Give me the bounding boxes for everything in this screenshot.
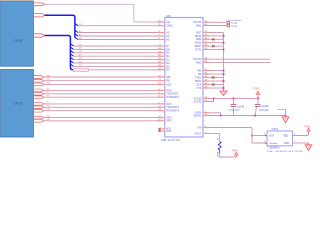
pin end dot OUT — [265, 135, 267, 137]
P3V3 power symbol right — [307, 128, 311, 131]
CPU3 port arrow 2 — [34, 14, 45, 17]
pin end dot Stand-by — [265, 142, 267, 144]
pin 34 D0 stub — [157, 69, 165, 71]
page border remnant left — [0, 0, 2, 2]
wire CPU3 arrow1 to U61 CE — [45, 4, 157, 22]
bus A fan to A2 — [75, 30, 78, 32]
pin 33 D1 stub — [157, 65, 165, 67]
svg-text:P18: P18 — [47, 83, 50, 85]
svg-text:TP134: TP134 — [231, 23, 238, 25]
pin 18 ALE stub — [157, 83, 165, 85]
svg-text:C1246: C1246 — [262, 105, 270, 108]
svg-text:P3V3: P3V3 — [305, 126, 312, 129]
pin 7 XOUT stub — [203, 132, 210, 134]
pin 13 RXD1/INT5 stub — [157, 110, 165, 112]
junction dot VCC42 — [213, 97, 215, 99]
wire right row y=70.5 — [210, 70, 224, 72]
pin 8 A2 stub — [157, 32, 165, 34]
wire SOUT1 to TP134 — [210, 21, 228, 23]
CPU2 port arrow 11 — [34, 119, 44, 122]
svg-text:OSC1: OSC1 — [272, 128, 279, 131]
wire CPU2 row pin 4 — [44, 89, 157, 91]
svg-text:XOUT: XOUT — [195, 132, 202, 135]
junction dot (49.5) — [222, 48, 224, 50]
wire D4 — [74, 55, 157, 57]
CPU2 block — [1, 70, 34, 138]
wire GND6 jog — [210, 113, 221, 116]
CPU2 port arrow 6 — [34, 96, 44, 99]
svg-text:10uF/16V: 10uF/16V — [259, 109, 270, 112]
svg-text:3: 3 — [264, 134, 265, 136]
svg-text:TP136: TP136 — [231, 26, 238, 28]
svg-text:CTS: CTS — [197, 87, 202, 90]
svg-text:P2: P2 — [47, 92, 49, 94]
svg-text:WR: WR — [166, 76, 170, 79]
page border remnant — [0, 0, 34, 2]
svg-text:P17: P17 — [47, 79, 50, 81]
wire XIN to OSC1 — [210, 128, 268, 144]
bus B fan entry — [70, 51, 73, 53]
wire VCC42 jog — [210, 98, 214, 101]
pin 35 SRDY stub — [203, 45, 210, 47]
pin 4 INT0 stub — [157, 89, 165, 91]
wire D6 — [74, 48, 157, 50]
svg-text:1.0uF 50V: 1.0uF 50V — [229, 109, 240, 112]
svg-text:CPU2: CPU2 — [14, 101, 23, 105]
svg-text:P16: P16 — [47, 75, 50, 77]
bus B fan entry — [70, 47, 73, 49]
capacitor C1246 — [257, 98, 259, 104]
P3V3 power symbol — [257, 94, 259, 98]
junction dot (35.9) — [222, 35, 224, 37]
pin 27 D7 stub — [157, 45, 165, 47]
junction dot (70.5) — [222, 69, 224, 71]
svg-text:1: 1 — [264, 141, 265, 143]
svg-text:Stand-by: Stand-by — [269, 142, 277, 145]
wire right row y=49.5 — [210, 49, 224, 51]
test point TP134 — [227, 21, 230, 24]
svg-text:VDD: VDD — [283, 135, 288, 138]
wire CPU2 row pin 13 — [44, 110, 157, 112]
pin 16 WR stub — [157, 76, 165, 78]
pin 41 RST stub — [203, 32, 210, 34]
pin 11 GND11 stub — [203, 115, 210, 117]
pin 29 D5 stub — [157, 52, 165, 54]
wire CPU2 row pin 20 — [44, 120, 157, 122]
CPU3 port arrow 1 — [34, 3, 45, 6]
no-ERC X at row 84.5 — [212, 83, 214, 85]
svg-text:1,2 Through hole: 1,2 Through hole — [226, 20, 242, 22]
wire D1 — [74, 65, 157, 67]
CPU2 port arrow 3 — [34, 83, 44, 86]
bus B fan entry — [70, 64, 73, 66]
no-connect X NC2 — [159, 130, 161, 132]
pin 28 D6 stub — [157, 48, 165, 50]
bus A fan to A1 — [75, 34, 78, 36]
wire GND rail — [210, 115, 286, 117]
no-ERC X at row 77.5 — [212, 76, 214, 78]
wire D3 — [74, 59, 157, 61]
svg-text:OUT: OUT — [269, 135, 275, 138]
svg-text:P12: P12 — [47, 106, 50, 108]
wire CPU2 row pin 3 — [44, 96, 157, 98]
svg-text:VCC42: VCC42 — [193, 100, 202, 103]
svg-text:CE: CE — [166, 21, 170, 24]
junction dot (42.7) — [222, 42, 224, 44]
pin 29 VCC29 stub — [203, 97, 210, 99]
wire right row y=81.0 — [210, 80, 224, 82]
pin 40 SDO2 stub — [203, 35, 210, 37]
junction dot (74.0) — [222, 73, 224, 75]
svg-text:RD: RD — [166, 80, 170, 83]
svg-text:P20: P20 — [47, 119, 50, 121]
pin 47 RXD2 stub — [203, 80, 210, 82]
junction dot XIN branch — [251, 135, 253, 137]
svg-text:GND: GND — [284, 142, 290, 145]
CPU2 port arrow 10 — [34, 116, 44, 119]
svg-text:U61: U61 — [166, 14, 171, 18]
svg-text:P3V3: P3V3 — [232, 150, 239, 153]
no-connect X NC1 — [159, 128, 161, 130]
wire right row y=46.1 — [210, 45, 224, 47]
svg-text:RXD1/INT5: RXD1/INT5 — [166, 110, 179, 113]
pin 37 SCK2 stub — [203, 42, 210, 44]
wire right row y=74.0 — [210, 73, 224, 75]
svg-text:RXD0/INT3: RXD0/INT3 — [166, 96, 179, 99]
wire CPU2 row pin 17 — [44, 80, 157, 82]
wire CPU2 row pin 5 — [44, 103, 157, 105]
wire right row y=77.5 — [210, 77, 224, 79]
power arrow down P3V3 bus — [223, 88, 225, 91]
svg-text:CHSL: CHSL — [166, 25, 173, 28]
bus wire B from CPU3 arrow 3 — [45, 36, 76, 70]
oscillator OSC1 body — [267, 131, 293, 146]
pin 5 INT1 stub — [157, 103, 165, 105]
svg-text:CTS1: CTS1 — [195, 48, 202, 51]
pin 46 TXD2 stub — [203, 77, 210, 79]
wire CHSL — [78, 25, 157, 27]
junction dot GND6 — [220, 115, 222, 117]
pin 3 RXD0/INT3 stub — [157, 96, 165, 98]
P3V3 power symbol bottom — [235, 155, 237, 157]
CPU2 port arrow 5 — [34, 92, 44, 95]
CPU3 port arrow 3 — [34, 34, 45, 37]
pin 7 A1 stub — [157, 35, 165, 37]
junction dot (88.0) — [222, 87, 224, 89]
pin 17 RD stub — [157, 80, 165, 82]
pin 43 SIN2 stub — [203, 61, 210, 63]
op IC U61 body — [165, 18, 203, 138]
bus A fan to CHSL — [75, 24, 78, 26]
bus A fan to A0 — [75, 37, 78, 39]
no-ERC X at row 39.3 — [212, 38, 214, 40]
svg-text:SIP2: SIP2 — [166, 120, 172, 123]
svg-text:P3: P3 — [47, 96, 49, 98]
bus B fan entry — [70, 44, 73, 46]
net label box CLK — [73, 69, 88, 72]
svg-text:SIN1: SIN1 — [196, 24, 202, 27]
pin 42 VCC42 stub — [203, 101, 210, 103]
wire CPU2 row pin 19 — [44, 117, 157, 119]
wire A0 — [78, 39, 157, 41]
wire right row y=88.0 — [210, 87, 224, 89]
pin 42 RI2 stub — [203, 70, 210, 72]
CPU2 port arrow 9 — [34, 109, 44, 112]
wire A1 — [78, 35, 157, 37]
pin 49 CTS stub — [203, 87, 210, 89]
svg-text:P13: P13 — [47, 109, 50, 111]
svg-text:P4: P4 — [47, 89, 49, 91]
wire VDD to P3V3 — [293, 131, 309, 135]
wire D5 — [74, 52, 157, 54]
CPU2 port arrow 4 — [34, 89, 44, 92]
wire XOUT to R686 — [210, 133, 220, 141]
pin 20 SIP2 stub — [157, 120, 165, 122]
CPU3 block — [1, 2, 34, 67]
wire GND to arrow — [293, 142, 309, 144]
wire CPU2 row pin 2 — [44, 93, 157, 95]
pin 39 SOUT1 stub — [203, 21, 210, 23]
pin 8 XIN stub — [203, 127, 210, 129]
pin 45 BZ stub — [203, 73, 210, 75]
pin 38 SDI2 stub — [203, 38, 210, 40]
svg-text:KSA-7.3828M-3D-GPS-JS2548: KSA-7.3828M-3D-GPS-JS2548 — [267, 150, 303, 153]
svg-text:XIN: XIN — [197, 126, 201, 129]
bus B fan entry — [70, 54, 73, 56]
pin 31 D3 stub — [157, 59, 165, 61]
svg-text:P5: P5 — [47, 102, 49, 104]
wire CPU2 row pin 18 — [44, 83, 157, 85]
junction dot cap1 top — [232, 97, 234, 99]
pin 6 A0 stub — [157, 39, 165, 41]
GND arrow down right — [282, 117, 289, 123]
svg-text:CPU3: CPU3 — [14, 39, 23, 43]
pin 36 SIN1 stub — [203, 25, 210, 27]
wire to OSC OUT — [252, 135, 267, 137]
resistor R686 — [218, 142, 221, 154]
pin 2 TXD0/INT2 stub — [157, 93, 165, 95]
CPU2 port arrow 7 — [34, 103, 44, 106]
wire CPU2 row pin 12 — [44, 106, 157, 108]
svg-text:NC2: NC2 — [166, 130, 172, 133]
CPU2 port arrow 8 — [34, 106, 44, 109]
no-ERC X at row 46.1 — [212, 45, 214, 47]
svg-text:SIN2: SIN2 — [196, 61, 202, 64]
svg-text:P3V3: P3V3 — [254, 87, 261, 90]
wire R686 to P3V3 — [220, 153, 237, 157]
wire CPU2 row pin 16 — [44, 76, 157, 78]
junction dot cap2 top — [257, 97, 259, 99]
pin 48 SCK stub — [203, 84, 210, 86]
junction dot (81.0) — [222, 80, 224, 82]
svg-text:7.3828MHz: 7.3828MHz — [267, 147, 280, 150]
pin 6 GND6 stub — [203, 112, 210, 114]
test point TP136 — [227, 24, 230, 27]
svg-text:MB-9C2752: MB-9C2752 — [161, 138, 180, 142]
wire SIN2 long — [210, 61, 271, 63]
junction dot GND end — [284, 114, 286, 116]
wire right row y=42.7 — [210, 42, 224, 44]
junction dot cap2 bottom — [254, 114, 256, 116]
svg-text:P19: P19 — [47, 116, 50, 118]
wire A2 — [78, 32, 157, 34]
wire right row y=84.5 — [210, 84, 224, 86]
capacitor C1245 — [233, 98, 235, 104]
bus wire A from CPU3 arrow 2 — [45, 15, 75, 37]
wire VCC rail — [210, 97, 259, 99]
CPU2 port arrow 2 — [34, 79, 44, 82]
pin 22 NC2 stub — [162, 130, 165, 132]
bus B fan entry — [70, 57, 73, 59]
wire SOUT2 long — [210, 58, 271, 60]
wire right row y=35.9 — [210, 35, 224, 37]
pin 19 SIP1 stub — [157, 117, 165, 119]
wire SIN1 to TP136 — [210, 25, 228, 27]
pin 32 D2 stub — [157, 62, 165, 64]
bus B fan entry — [70, 61, 73, 63]
svg-text:GND11: GND11 — [193, 114, 202, 117]
pin 44 SOUT2 stub — [203, 58, 210, 60]
pin 11 CHSL stub — [157, 25, 165, 27]
pin 10 CE stub — [157, 21, 165, 23]
wire RST to bus corner — [210, 33, 224, 89]
wire D0 row — [76, 69, 157, 71]
pin 30 D4 stub — [157, 55, 165, 57]
elbow wire right of caps — [277, 109, 286, 115]
pin 12 TXD1/INT4 stub — [157, 106, 165, 108]
GND arrow down OSC — [308, 143, 310, 145]
wire D2 — [74, 62, 157, 64]
pin 34 CTS1 stub — [203, 49, 210, 51]
svg-text:ALE: ALE — [166, 83, 171, 86]
pin 21 NC1 stub — [162, 128, 165, 130]
CPU2 port arrow 1 — [34, 76, 44, 79]
wire right row y=39.3 — [210, 38, 224, 40]
wire D7 — [74, 45, 157, 47]
